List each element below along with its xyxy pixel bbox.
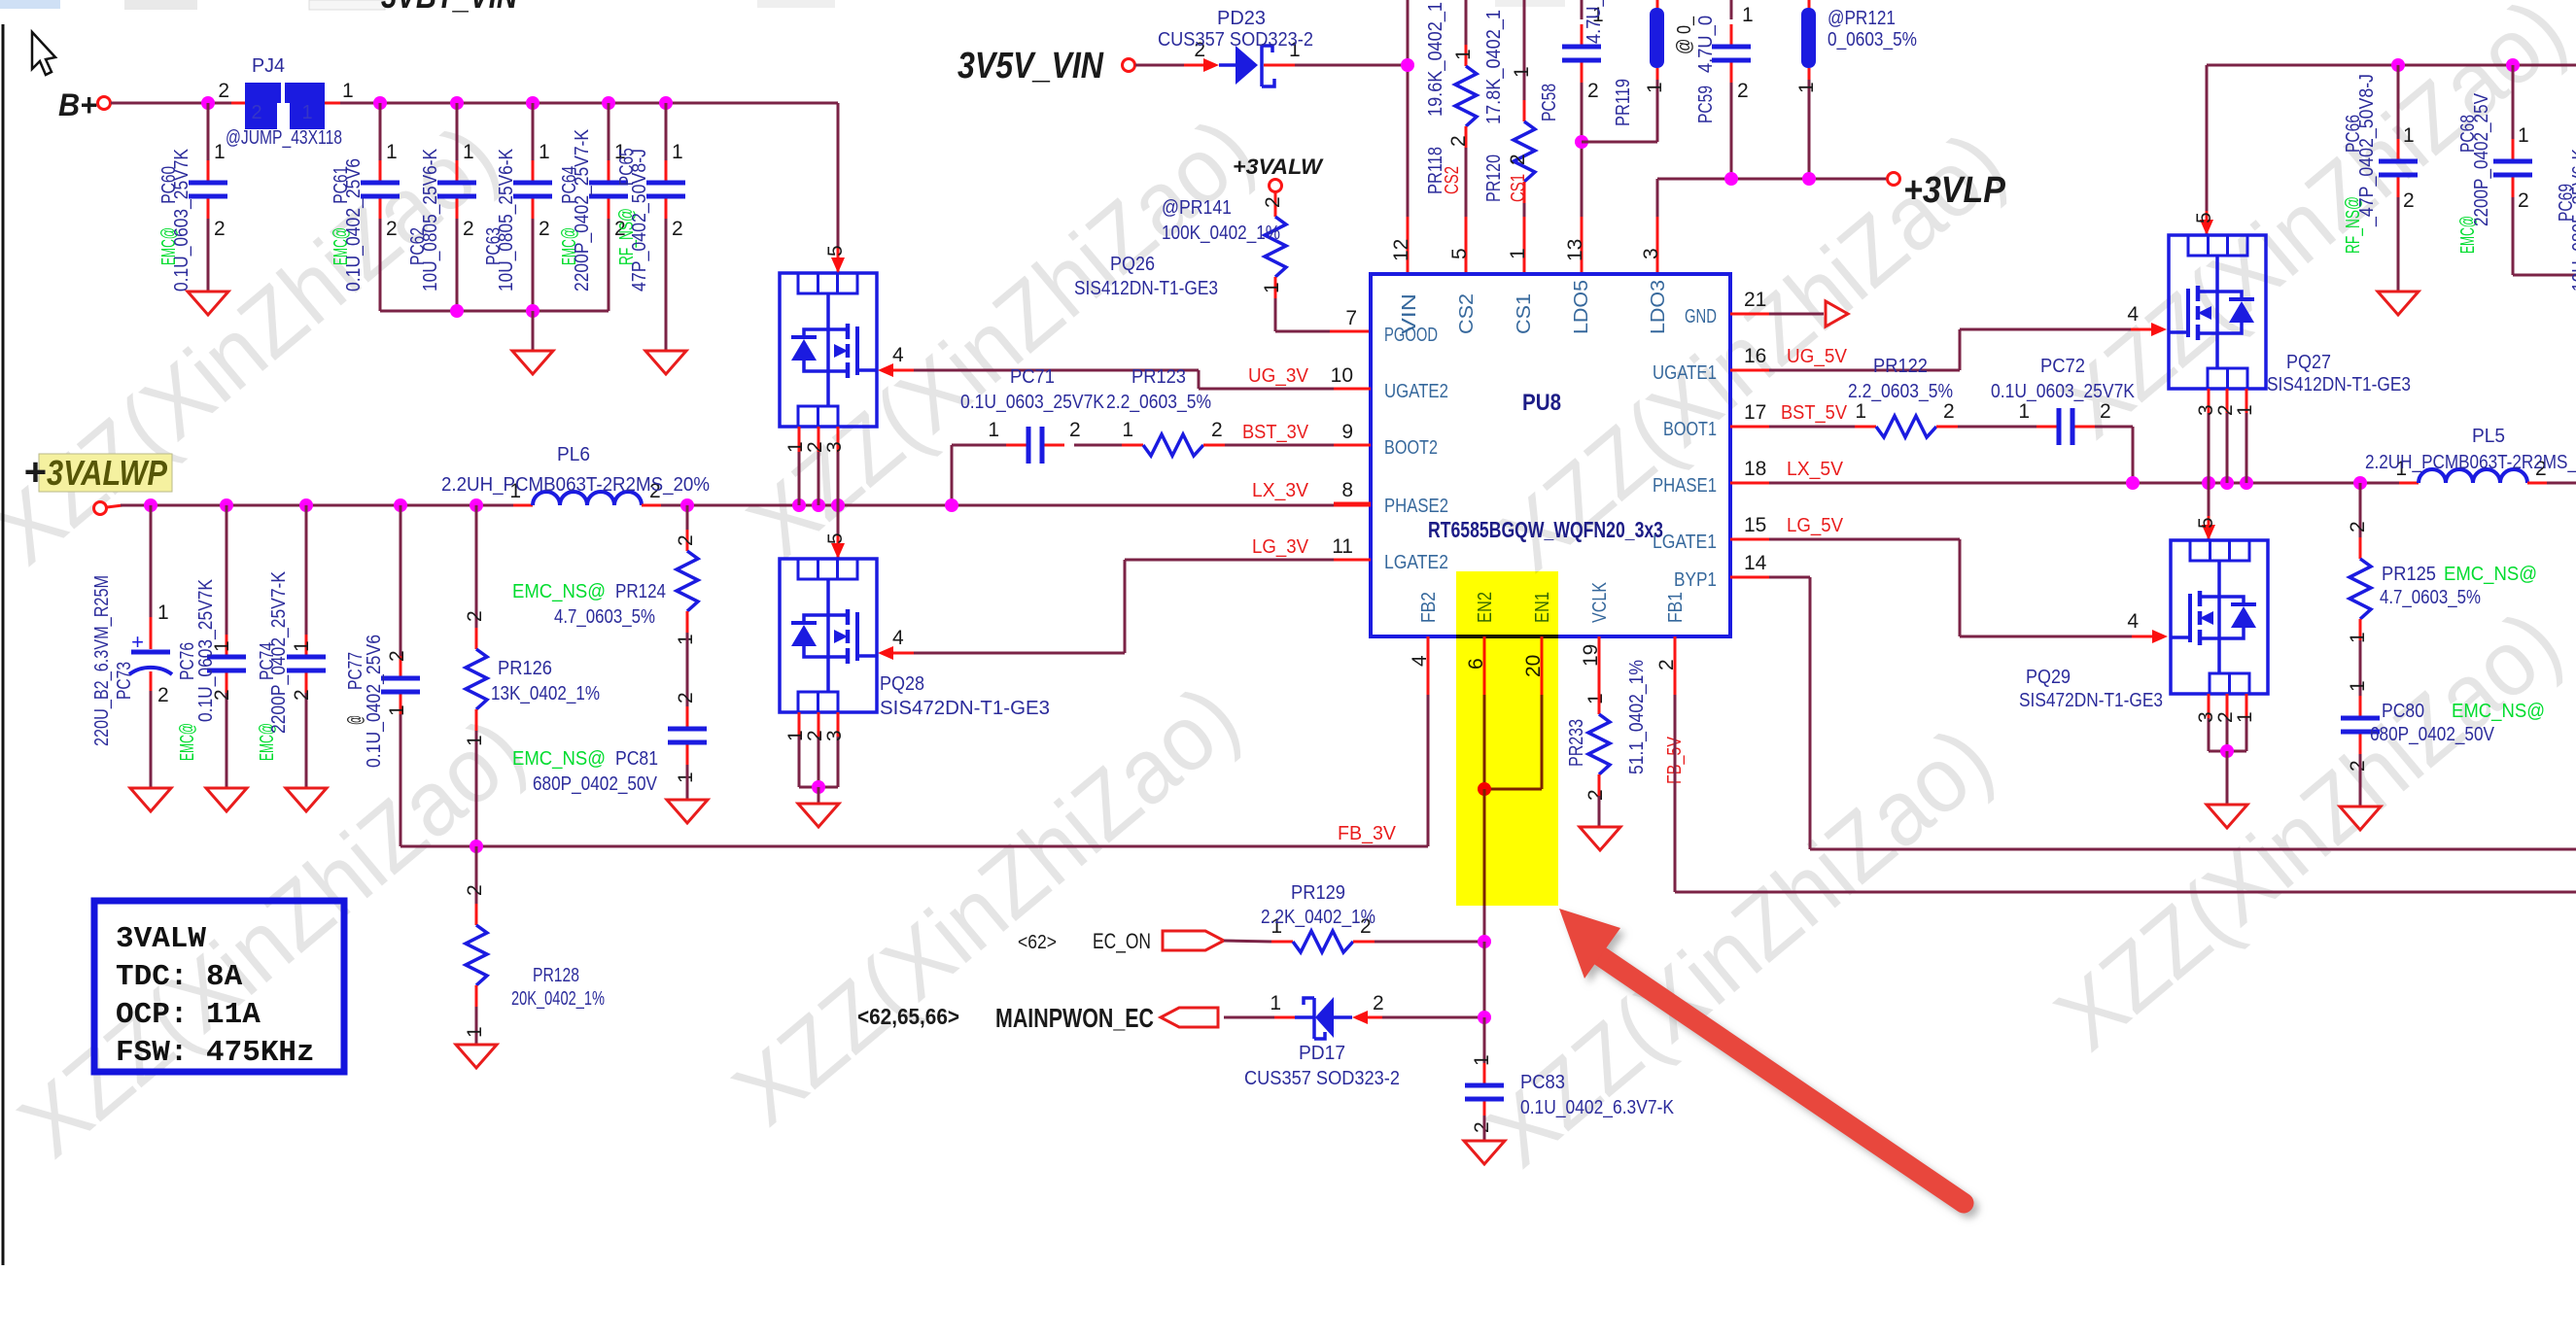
svg-text:1: 1 [1507, 248, 1529, 259]
pin 5 arrow into PQ28 [831, 543, 845, 559]
ground for PR233 [1580, 827, 1620, 850]
svg-text:2: 2 [218, 80, 229, 102]
pins 1-3 of PQ28 to ground [798, 712, 801, 737]
svg-text:LG_5V: LG_5V [1787, 515, 1844, 536]
svg-text:2: 2 [675, 534, 697, 546]
capacitor PC63 [532, 103, 535, 161]
svg-text:1: 1 [1122, 419, 1133, 441]
svg-text:1: 1 [539, 141, 550, 163]
svg-text:BOOT1: BOOT1 [1663, 419, 1717, 440]
capacitor PC72 [2036, 426, 2059, 429]
svg-text:4: 4 [892, 627, 904, 649]
svg-text:@JUMP_43X118: @JUMP_43X118 [226, 127, 342, 149]
svg-text:<62>: <62> [1018, 932, 1057, 953]
jumper PJ4 [231, 102, 245, 105]
pin 19 VCLK stub [1598, 636, 1601, 693]
svg-text:680P_0402_50V: 680P_0402_50V [2370, 724, 2495, 745]
svg-text:1: 1 [291, 640, 313, 652]
svg-text:BST_5V: BST_5V [1781, 402, 1848, 424]
svg-text:UG_5V: UG_5V [1787, 346, 1848, 367]
svg-text:2: 2 [2518, 189, 2529, 212]
transistor PQ26 [780, 273, 877, 427]
svg-text:+3VLP: +3VLP [1903, 170, 2006, 211]
svg-text:1: 1 [2518, 124, 2529, 147]
capacitor PC64 [608, 103, 610, 161]
junction B+/PC63 [526, 96, 540, 110]
svg-text:CUS357 SOD323-2: CUS357 SOD323-2 [1158, 29, 1313, 51]
wire PC72 to LX_5V [2095, 426, 2133, 429]
svg-text:1: 1 [301, 102, 312, 123]
svg-text:2: 2 [157, 684, 169, 706]
svg-text:PR123: PR123 [1131, 366, 1186, 388]
svg-text:2: 2 [1262, 196, 1284, 208]
ground for PQ28 [798, 804, 839, 827]
ground for PC83 [1464, 1141, 1505, 1164]
svg-text:5: 5 [2193, 212, 2215, 223]
svg-text:13K_0402_1%: 13K_0402_1% [491, 683, 600, 704]
pin 15 LGATE1 stub [1730, 538, 1769, 541]
svg-text:2: 2 [539, 218, 550, 240]
pin 18 PHASE1 stub [1730, 482, 1769, 485]
svg-text:OCP: 11A: OCP: 11A [116, 998, 261, 1032]
svg-text:_47P_0402_50V8-J: _47P_0402_50V8-J [2356, 74, 2378, 227]
wire EC_ON to PR129 [1224, 941, 1271, 942]
transistor PQ29 [2171, 540, 2268, 694]
junction B+/PC61 [373, 96, 387, 110]
pins 3-1 of PQ27 to LX_5V [2208, 389, 2210, 413]
wire FB2 / FB_3V net [1427, 695, 1430, 846]
ground for PC61-PC64 group [512, 351, 553, 374]
svg-text:1: 1 [988, 419, 999, 441]
svg-text:PR126: PR126 [498, 658, 552, 679]
svg-text:3VBT_VIN: 3VBT_VIN [381, 0, 518, 16]
svg-text:PQ26: PQ26 [1110, 254, 1155, 275]
inductor PL6 [513, 504, 533, 507]
svg-text:2: 2 [1943, 400, 1955, 423]
svg-text:UG_3V: UG_3V [1248, 365, 1309, 387]
svg-text:0.1U_0603_25V7K: 0.1U_0603_25V7K [195, 578, 217, 722]
svg-text:4.7U_0: 4.7U_0 [1695, 16, 1717, 73]
capacitor PC80 [2359, 680, 2362, 696]
svg-text:PGOOD: PGOOD [1384, 325, 1438, 346]
svg-text:47P_0402_50V8-J: 47P_0402_50V8-J [629, 149, 650, 292]
svg-text:2: 2 [464, 884, 486, 896]
svg-text:2: 2 [2403, 189, 2415, 212]
resistor PR118 [1465, 0, 1468, 47]
svg-text:1: 1 [1795, 82, 1818, 93]
svg-text:14: 14 [1744, 552, 1767, 574]
svg-text:PL6: PL6 [557, 444, 590, 465]
svg-text:LDO5: LDO5 [1571, 280, 1592, 334]
wire PR233 to ground [1598, 796, 1601, 827]
svg-text:5: 5 [824, 245, 847, 257]
svg-text:EMC_NS@: EMC_NS@ [2452, 701, 2545, 722]
svg-text:PR119: PR119 [1613, 79, 1634, 126]
wire rail to PQ28 pin5 [837, 505, 840, 534]
terminal +3VALW [1270, 180, 1282, 192]
svg-text:B+: B+ [58, 87, 97, 122]
port MAINPWON_EC tag [1161, 1008, 1218, 1027]
resistor PR123 [1122, 444, 1143, 447]
ground for PC66 [2378, 292, 2419, 315]
svg-text:1: 1 [2347, 632, 2369, 643]
svg-text:3V5V_VIN: 3V5V_VIN [957, 46, 1104, 86]
capacitor PC81 [686, 706, 689, 729]
terminal 3V5V_VIN [1123, 59, 1135, 72]
svg-text:UGATE1: UGATE1 [1653, 362, 1717, 384]
svg-text:CS1: CS1 [1514, 293, 1535, 334]
svg-text:17: 17 [1744, 401, 1766, 424]
svg-text:0.1U_0603_25V7K: 0.1U_0603_25V7K [960, 392, 1105, 413]
svg-text:CS2: CS2 [1456, 293, 1478, 334]
svg-text:PR125: PR125 [2382, 564, 2436, 585]
resistor PR124 [686, 505, 689, 530]
svg-text:2: 2 [386, 218, 398, 240]
svg-text:0.1U_0603_25V7K: 0.1U_0603_25V7K [171, 148, 192, 292]
svg-text:2: 2 [251, 102, 261, 123]
svg-text:10U_0805_25V6-K: 10U_0805_25V6-K [2569, 148, 2576, 292]
svg-text:1: 1 [1471, 1054, 1493, 1066]
svg-text:2: 2 [1737, 80, 1749, 102]
svg-text:5: 5 [2195, 517, 2217, 529]
svg-text:BOOT2: BOOT2 [1384, 437, 1438, 459]
svg-text:1: 1 [1855, 400, 1866, 423]
resistor PR119 (0 ohm bar) [1656, 0, 1659, 10]
left page border line [2, 24, 5, 1265]
ground for PC80 [2340, 807, 2381, 830]
pin 8 PHASE2 stub [1334, 502, 1371, 505]
svg-text:XZZ(XinZhiZao): XZZ(XinZhiZao) [0, 699, 542, 1178]
svg-text:PR124: PR124 [615, 581, 666, 602]
svg-text:LG_3V: LG_3V [1252, 536, 1309, 558]
svg-text:12: 12 [1390, 239, 1412, 261]
resistor PR125 [2359, 483, 2362, 537]
svg-text:11: 11 [1332, 535, 1353, 558]
terminal +3VALWP [94, 502, 107, 515]
svg-text:9: 9 [1341, 421, 1353, 443]
svg-text:4.7U_06: 4.7U_06 [1584, 0, 1605, 44]
ground for PC73 [130, 788, 171, 811]
ground for PR128 [456, 1045, 497, 1068]
pin 21 GND stub [1730, 313, 1769, 316]
svg-text:0.1U_0402_25V6: 0.1U_0402_25V6 [364, 635, 385, 768]
svg-text:VCLK: VCLK [1589, 581, 1611, 623]
junction MAINPWON/EN [1478, 1011, 1491, 1024]
info box 3VALW [94, 901, 344, 1072]
capacitor PC66 [2397, 65, 2400, 139]
svg-text:2200P_0402_25V: 2200P_0402_25V [2471, 92, 2492, 226]
svg-text:2: 2 [2100, 400, 2111, 423]
wire LX_3V rail left of PL6 [107, 505, 122, 507]
wire UG_5V to PQ27 gate [1959, 329, 1962, 370]
wire LG_5V to PQ29 gate [1959, 539, 1962, 636]
capacitor PC74 [305, 505, 308, 635]
svg-text:4.7_0603_5%: 4.7_0603_5% [554, 606, 655, 628]
wire PC66 top rail [2207, 64, 2576, 67]
svg-text:2: 2 [1584, 789, 1607, 801]
capacitor PC61 [379, 103, 382, 161]
capacitor PC59 [1730, 0, 1733, 19]
capacitor PC68 [2512, 65, 2515, 139]
svg-text:1: 1 [2403, 124, 2415, 147]
svg-text:BST_3V: BST_3V [1242, 422, 1309, 443]
svg-text:2200P_0402_25V7-K: 2200P_0402_25V7-K [268, 570, 290, 734]
pin 11 LGATE2 stub [1334, 559, 1371, 562]
pins 1-3 of PQ26 to rail [798, 427, 801, 452]
svg-text:2.2UH_PCMB063T-2R2MS_20%: 2.2UH_PCMB063T-2R2MS_20% [441, 474, 710, 496]
wire PR124 to PC81 [686, 633, 689, 706]
svg-text:FSW: 475KHz: FSW: 475KHz [116, 1036, 315, 1070]
svg-text:PC81: PC81 [615, 748, 658, 770]
ic PU8 body [1371, 274, 1730, 636]
svg-text:PC73: PC73 [114, 662, 135, 700]
wire FB1 / FB_5V net [1674, 695, 1677, 892]
pin 10 UGATE2 stub [1334, 388, 1371, 391]
pin 2 FB1 stub [1674, 636, 1677, 695]
junction B+/PC64 [602, 96, 615, 110]
svg-text:EMC@: EMC@ [177, 723, 198, 761]
svg-text:@PR121: @PR121 [1828, 8, 1896, 29]
gnd output arrow [1826, 301, 1848, 326]
svg-text:16: 16 [1744, 345, 1766, 367]
ground for PC74 [286, 788, 327, 811]
wire VIN vertical [1407, 0, 1410, 217]
svg-text:LX_5V: LX_5V [1787, 459, 1844, 480]
ground for PC76 [206, 788, 247, 811]
resistor PR122 [1855, 426, 1876, 429]
svg-text:LX_3V: LX_3V [1252, 480, 1309, 501]
svg-text:2: 2 [1373, 992, 1384, 1014]
wire LX_3V rail right of PL6 [661, 504, 1334, 507]
svg-text:CS1: CS1 [1508, 174, 1529, 202]
svg-text:2: 2 [1507, 154, 1529, 165]
svg-text:1: 1 [2234, 404, 2256, 416]
svg-text:1: 1 [464, 735, 486, 746]
svg-text:UGATE2: UGATE2 [1384, 381, 1448, 402]
wire PR122 to PC72 [1958, 426, 2036, 429]
pin 5 arrow into PQ29 [2202, 525, 2215, 540]
pin 16 UGATE1 stub [1730, 369, 1769, 372]
svg-text:PC71: PC71 [1010, 366, 1055, 388]
wire B+ bus [111, 102, 231, 105]
svg-text:15: 15 [1744, 514, 1766, 536]
wire 3V5V_VIN to diode [1135, 64, 1184, 67]
svg-text:PC72: PC72 [2040, 356, 2085, 377]
svg-text:1: 1 [1270, 992, 1281, 1014]
mouse cursor [32, 32, 55, 75]
pin 4 FB2 stub [1427, 636, 1430, 695]
pin 17 BOOT1 stub [1730, 426, 1769, 429]
svg-text:GND: GND [1685, 306, 1717, 327]
svg-text:PR122: PR122 [1873, 356, 1928, 377]
wire PR123 to PC71 [1074, 444, 1122, 447]
ground for PC81 [667, 800, 708, 823]
wire PC68 to right edge [2513, 274, 2576, 277]
svg-text:PD23: PD23 [1217, 8, 1266, 29]
resistor PR128 [475, 846, 478, 904]
svg-text:1: 1 [1511, 66, 1533, 78]
svg-text:1: 1 [2347, 680, 2369, 692]
svg-text:PC58: PC58 [1539, 84, 1560, 121]
svg-text:TDC: 8A: TDC: 8A [116, 960, 243, 994]
svg-text:+: + [23, 451, 46, 494]
svg-text:LGATE2: LGATE2 [1384, 552, 1448, 573]
ground for PC65 [645, 351, 686, 374]
svg-text:2: 2 [2347, 760, 2369, 772]
svg-text:1: 1 [386, 141, 398, 163]
junction B+/PC62 [450, 96, 464, 110]
svg-text:2: 2 [1069, 419, 1081, 441]
wire UG_3V to PQ26 gate [1198, 370, 1201, 389]
resistor PR126 [475, 505, 478, 628]
svg-text:2: 2 [214, 218, 226, 240]
svg-text:1: 1 [2234, 711, 2256, 723]
port EC_ON tag [1163, 931, 1224, 950]
wire top rail to PQ27 pin5 [2206, 65, 2209, 211]
capacitor PC58 [1581, 0, 1584, 19]
svg-text:2: 2 [2347, 521, 2369, 533]
ground for PQ29 [2207, 805, 2247, 828]
svg-text:2: 2 [1655, 659, 1678, 670]
svg-text:2200P_0402_25V7-K: 2200P_0402_25V7-K [572, 128, 593, 292]
svg-text:PR120: PR120 [1483, 155, 1505, 202]
svg-text:1: 1 [1742, 4, 1754, 26]
resistor PR129 [1271, 941, 1293, 944]
svg-text:10U_0805_25V6-K: 10U_0805_25V6-K [496, 148, 517, 292]
svg-text:3: 3 [823, 730, 846, 741]
svg-text:220U_B2_6.3VM_R25M: 220U_B2_6.3VM_R25M [91, 575, 113, 746]
svg-text:RT6585BGQW_WQFN20_3x3: RT6585BGQW_WQFN20_3x3 [1428, 517, 1663, 542]
svg-text:1: 1 [1261, 282, 1283, 293]
svg-text:PHASE1: PHASE1 [1653, 475, 1717, 497]
svg-text:PQ28: PQ28 [880, 673, 924, 695]
capacitor PC73 (polarized) [150, 505, 153, 617]
svg-text:PL5: PL5 [2472, 426, 2505, 447]
terminal B+ [98, 97, 111, 110]
node +3VALWP highlight [39, 454, 172, 492]
svg-text:2: 2 [463, 218, 474, 240]
svg-text:5: 5 [824, 533, 847, 544]
transistor PQ28 [780, 559, 877, 712]
svg-text:EMC_NS@: EMC_NS@ [2444, 564, 2537, 585]
svg-text:2: 2 [1211, 419, 1223, 441]
svg-text:EC_ON: EC_ON [1093, 929, 1151, 953]
svg-text:CUS357 SOD323-2: CUS357 SOD323-2 [1244, 1068, 1400, 1089]
capacitor PC60 [207, 103, 210, 161]
capacitor PC71 [1006, 444, 1028, 447]
svg-text:2: 2 [1587, 80, 1599, 102]
svg-text:1: 1 [1644, 82, 1666, 93]
junction EC_ON/EN [1478, 935, 1491, 948]
svg-text:PHASE2: PHASE2 [1384, 496, 1448, 517]
diode PD17 [1295, 1015, 1314, 1019]
resistor PR121 (0 ohm bar) [1808, 0, 1811, 10]
capacitor PC83 [1483, 1017, 1486, 1069]
wire LX_5V to PQ29 pin5 [2208, 483, 2210, 516]
svg-text:20K_0402_1%: 20K_0402_1% [511, 988, 605, 1010]
svg-text:1: 1 [386, 704, 408, 716]
wire PR129 to EN net [1375, 941, 1484, 944]
junction FB_3V/PR126 [470, 840, 483, 853]
svg-text:4: 4 [2127, 303, 2139, 326]
svg-text:0_0603_5%: 0_0603_5% [1828, 29, 1917, 51]
wire MAINPWON to PD17 [1224, 1016, 1274, 1019]
svg-text:CS2: CS2 [1442, 166, 1463, 194]
browser ui remnant strip [0, 0, 1565, 10]
capacitor PC77 [400, 505, 402, 656]
svg-text:2.2UH_PCMB063T-2R2MS_: 2.2UH_PCMB063T-2R2MS_ [2365, 452, 2576, 473]
svg-text:2: 2 [386, 650, 408, 662]
svg-text:EMC_NS@: EMC_NS@ [512, 748, 606, 770]
svg-text:10: 10 [1331, 364, 1353, 387]
svg-text:@PR141: @PR141 [1162, 197, 1232, 219]
svg-text:3VALWP: 3VALWP [47, 453, 168, 493]
svg-text:+3VALW: +3VALW [1233, 155, 1324, 179]
transistor PQ27 [2169, 235, 2266, 389]
svg-text:10U_0805_25V6-K: 10U_0805_25V6-K [420, 148, 441, 292]
terminal +3VLP [1888, 173, 1900, 186]
svg-text:+: + [131, 630, 144, 654]
wire LG_3V to PQ28 gate [1124, 560, 1127, 653]
svg-text:21: 21 [1744, 289, 1766, 311]
svg-text:SIS472DN-T1-GE3: SIS472DN-T1-GE3 [2019, 690, 2163, 711]
svg-text:1: 1 [672, 141, 683, 163]
diode PD23 [1219, 63, 1236, 67]
svg-text:<62,65,66>: <62,65,66> [857, 1004, 959, 1029]
svg-text:7: 7 [1345, 307, 1357, 329]
svg-text:PU8: PU8 [1522, 390, 1561, 416]
svg-text:100K_0402_1%: 100K_0402_1% [1162, 223, 1280, 244]
svg-text:13: 13 [1564, 239, 1586, 261]
svg-text:SIS412DN-T1-GE3: SIS412DN-T1-GE3 [1074, 278, 1218, 299]
svg-text:3VALW: 3VALW [116, 922, 206, 956]
svg-text:1: 1 [2018, 400, 2030, 423]
svg-text:2: 2 [1471, 1121, 1493, 1133]
svg-text:1: 1 [1584, 693, 1607, 704]
svg-text:XZZ(XinZhiZao): XZZ(XinZhiZao) [2036, 592, 2576, 1071]
svg-text:1: 1 [1452, 49, 1475, 60]
svg-text:SIS412DN-T1-GE3: SIS412DN-T1-GE3 [2267, 374, 2411, 395]
inductor PL5 [2399, 482, 2419, 485]
svg-text:1: 1 [464, 1026, 486, 1038]
svg-text:PQ29: PQ29 [2026, 667, 2071, 688]
svg-text:MAINPWON_EC: MAINPWON_EC [995, 1003, 1154, 1033]
svg-text:8: 8 [1341, 479, 1353, 501]
svg-text:FB1: FB1 [1665, 592, 1687, 623]
svg-text:1: 1 [157, 601, 169, 624]
svg-text:2: 2 [291, 689, 313, 701]
wire EN net down to MAINPWON [1483, 942, 1486, 1017]
svg-text:19.6K_0402_1: 19.6K_0402_1 [1425, 2, 1446, 117]
svg-text:FB_3V: FB_3V [1338, 823, 1397, 844]
svg-text:2: 2 [675, 692, 697, 704]
svg-text:5: 5 [1448, 248, 1471, 259]
highlight EN1/EN2 yellow [1456, 571, 1558, 906]
svg-text:0.1U_0402_25V6: 0.1U_0402_25V6 [343, 158, 365, 292]
svg-text:2: 2 [672, 218, 683, 240]
wire EN1/EN2 tie [1483, 695, 1486, 789]
svg-text:17.8K_0402_1: 17.8K_0402_1 [1483, 10, 1505, 124]
svg-text:PQ27: PQ27 [2286, 352, 2331, 373]
ground for PC60 [188, 292, 228, 315]
pin 9 BOOT2 stub [1334, 444, 1371, 447]
svg-text:4: 4 [892, 344, 904, 366]
svg-text:1: 1 [463, 141, 474, 163]
junction B+/PC65 [659, 96, 673, 110]
resistor PR141 [1274, 191, 1277, 195]
svg-text:18: 18 [1744, 458, 1766, 480]
svg-text:BYP1: BYP1 [1674, 569, 1717, 591]
